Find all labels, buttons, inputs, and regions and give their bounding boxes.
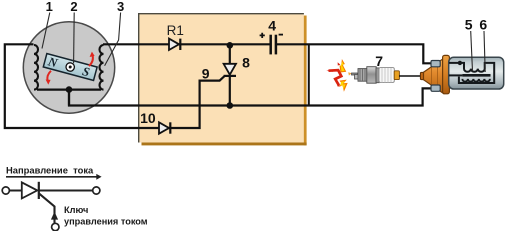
HT lead xyxy=(399,75,422,77)
svg-text:управления током: управления током xyxy=(64,216,148,226)
svg-text:7: 7 xyxy=(375,53,383,69)
rotation arrow bottom-left xyxy=(46,71,51,85)
legend thyristor: right terminal xyxy=(93,187,100,194)
svg-text:3: 3 xyxy=(117,0,124,14)
leader 2 xyxy=(73,13,76,64)
node top (anode junction) xyxy=(227,42,234,49)
CDI unit box xyxy=(139,14,307,146)
svg-text:8: 8 xyxy=(242,54,250,70)
svg-text:Направление тока: Направление тока xyxy=(6,165,94,176)
secondary winding 6 xyxy=(449,74,463,76)
svg-text:1: 1 xyxy=(46,0,53,14)
terminal stud bottom xyxy=(431,85,440,91)
rotation arrow top-right xyxy=(89,52,95,66)
legend: arrow xyxy=(6,174,102,180)
diode 10 xyxy=(159,122,170,133)
ignition coil body 5/6 xyxy=(449,57,504,89)
ignition coil boot cone xyxy=(420,59,443,94)
svg-text:Ключ: Ключ xyxy=(64,205,88,215)
terminal stud top xyxy=(431,61,440,67)
magnet rotor (2) xyxy=(43,54,97,81)
legend thyristor symbol xyxy=(9,182,93,199)
wire: middle (magneto center tap to coil low terminal) xyxy=(69,88,431,105)
spark flash xyxy=(326,59,352,92)
leader 6 xyxy=(484,31,485,72)
svg-text:9: 9 xyxy=(202,66,210,82)
coil winding right (3) xyxy=(99,45,103,90)
thyristor 8 xyxy=(224,44,236,105)
wire: top left segment (coil to capacitor) xyxy=(103,43,270,45)
diode R1 xyxy=(169,39,180,50)
coil winding left (1) xyxy=(34,45,38,90)
node: magneto center tap xyxy=(66,86,73,93)
node: thyristor cathode junction xyxy=(227,102,234,109)
chamber wall xyxy=(308,44,310,105)
svg-text:6: 6 xyxy=(479,16,487,32)
magneto body xyxy=(23,22,114,113)
svg-text:2: 2 xyxy=(70,0,77,14)
svg-text:R1: R1 xyxy=(167,23,184,38)
capacitor 4 xyxy=(260,33,283,55)
wire: top right segment (capacitor to ignition coil) xyxy=(277,44,431,63)
legend gate lead xyxy=(39,193,59,230)
svg-text:4: 4 xyxy=(268,18,276,34)
spark plug 7 xyxy=(352,67,400,84)
wire: winding bottoms inside magneto xyxy=(37,88,101,90)
svg-text:5: 5 xyxy=(465,16,473,32)
leader 1 xyxy=(42,13,50,49)
primary winding 5 xyxy=(449,63,494,83)
leader 3 xyxy=(105,13,121,66)
legend thyristor: left terminal xyxy=(2,187,9,194)
svg-text:10: 10 xyxy=(140,110,156,126)
ignition coil flange xyxy=(443,55,450,93)
wire: left frame + gate return xyxy=(5,44,225,128)
leader 5 xyxy=(471,31,473,71)
